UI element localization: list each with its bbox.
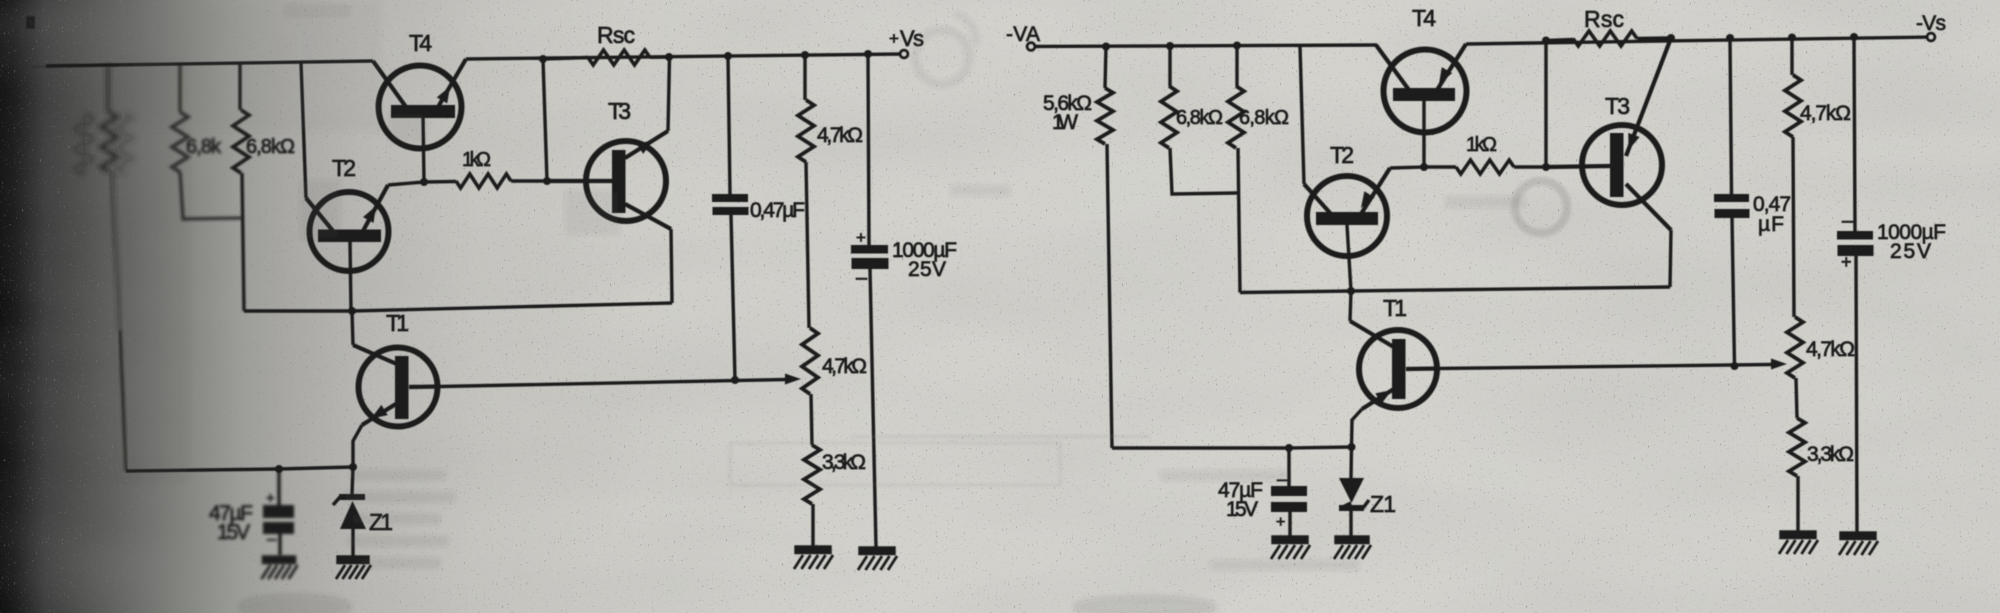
node: rail junction T3 emitter (right) — [1667, 34, 1675, 42]
label 47uF (left, blurred) — [209, 502, 253, 544]
node: rail junction 1000uF (right) — [1850, 33, 1858, 41]
wire: T3 collector down — [671, 229, 672, 303]
wire: wiper wire from T1 base (left) — [440, 380, 786, 387]
node: rail junction 6,8k first — [1166, 42, 1174, 50]
capacitor 0,47uF (left) — [712, 56, 749, 380]
svg-text:6,8kΩ: 6,8kΩ — [1176, 107, 1223, 129]
svg-text:6,8kΩ: 6,8kΩ — [1239, 107, 1289, 129]
node: rail junction T3 emitter — [665, 53, 673, 61]
transistor T1 (right) — [1350, 321, 1437, 409]
node: 47uF junction (left) — [275, 465, 283, 473]
node: 47uF junction (right) — [1285, 444, 1293, 452]
paper shading top-left — [130, 0, 380, 130]
transistor T2 (right) — [1304, 168, 1390, 256]
capacitor 0,47uF (right) — [1714, 38, 1750, 366]
wire: T3 emitter up to rail — [668, 57, 670, 131]
wire: T3 base node up to rail — [543, 59, 547, 181]
node: rail junction 1000uF (left) — [864, 50, 872, 58]
wire: rail after Rsc (right) — [1637, 36, 1671, 40]
wire: T4 base to 1k node — [423, 116, 424, 182]
svg-text:15V: 15V — [217, 521, 250, 544]
svg-text:Rsc: Rsc — [597, 22, 635, 48]
ground: 1000uF (left) — [858, 548, 897, 570]
svg-text:µF: µF — [1758, 213, 1784, 236]
wire: T2 collector to rail — [301, 63, 306, 198]
svg-text:+: + — [266, 490, 275, 507]
bleed-through smudge (mid right) — [950, 185, 1525, 208]
transistor T3 (left) — [548, 131, 671, 229]
svg-text:3,3kΩ: 3,3kΩ — [1807, 443, 1854, 466]
terminal -VA — [1027, 43, 1035, 51]
wire: bottom reference wire (left) — [126, 467, 353, 471]
wire: T2 base down (right) — [1347, 225, 1351, 291]
bleed-through box outline (bottom middle) — [730, 443, 1060, 485]
svg-text:15V: 15V — [1226, 498, 1258, 521]
resistor Rsc (left) — [588, 50, 650, 65]
svg-text:25V: 25V — [1890, 240, 1931, 263]
wire: T2 base down — [350, 241, 351, 311]
bleed-through text ghosts (bottom left) — [345, 470, 455, 568]
wire: T2 base / T3 collector horizontal — [244, 303, 672, 311]
node: rail junction at Rsc left (right) — [1542, 37, 1550, 45]
faint crease streak (center) — [850, 435, 1150, 438]
transistor T2 (left) — [306, 185, 389, 271]
wire: T2 emitter to 1k node — [388, 182, 424, 185]
svg-text:+: + — [1276, 514, 1285, 531]
wire: rail gap Rsc left (left circuit) — [543, 58, 588, 60]
svg-text:T2: T2 — [1330, 142, 1354, 168]
svg-text:-VA: -VA — [1006, 23, 1040, 46]
svg-text:T4: T4 — [1412, 5, 1436, 31]
node: rail junction 0,47uF (right) — [1726, 34, 1734, 42]
zener diode Z1 (right) — [1339, 447, 1369, 536]
transistor T4 (left) — [373, 59, 466, 149]
node: rail junction 4,7k (right) — [1788, 34, 1796, 42]
resistor Rsc (right) — [1573, 31, 1637, 46]
wire: 1k left lead (right) — [1424, 165, 1456, 168]
rail fade into gutter (left) — [34, 64, 70, 70]
resistor 6,8k (right second) — [1228, 46, 1244, 293]
resistor 5,6k 1W (right) — [1097, 47, 1113, 449]
ground: 1000uF (right) — [1839, 533, 1878, 555]
svg-text:T1: T1 — [386, 310, 409, 336]
node: zener junction (left) — [349, 463, 357, 471]
node: T3 base junction — [543, 177, 551, 185]
svg-text:4,7kΩ: 4,7kΩ — [817, 124, 863, 147]
transistor T4 (right) — [1376, 44, 1467, 133]
svg-text:4,7kΩ: 4,7kΩ — [1800, 102, 1851, 125]
resistor 3,3k (left) — [804, 445, 820, 547]
potentiometer 4,7k (left) — [802, 328, 818, 445]
svg-text:6,8k: 6,8k — [186, 136, 222, 158]
svg-text:4,7kΩ: 4,7kΩ — [1806, 338, 1855, 361]
ghost bleed-through circle (page reverse) — [915, 14, 976, 84]
capacitor 47uF 15V (right) — [1271, 448, 1307, 536]
ground: 47uF (right) — [1271, 537, 1310, 559]
node: T1 collector junction (right) — [1347, 287, 1355, 295]
svg-text:–: – — [267, 529, 277, 548]
ground: divider (right) — [1779, 532, 1818, 554]
wire: 1k right lead to T3 base node — [511, 179, 548, 182]
wire: left circuit top supply rail — [46, 61, 373, 66]
svg-text:Rsc: Rsc — [1584, 6, 1624, 32]
node: zener junction (right) — [1348, 443, 1356, 451]
resistor 3,3k (right) — [1789, 418, 1805, 532]
wire: T2 collector to rail (right) — [1300, 46, 1304, 184]
terminal +Vs — [900, 50, 908, 58]
node: rail junction 4,7k (left) — [801, 51, 809, 59]
ground: divider (left) — [794, 547, 833, 569]
wire: T1 collector up — [352, 311, 353, 345]
wire: T4 base down (right) — [1422, 99, 1425, 167]
node: rail junction 0,47uF (left) — [724, 52, 732, 60]
svg-text:+: + — [889, 29, 899, 48]
ground: zener (left) — [336, 557, 371, 579]
svg-text:1kΩ: 1kΩ — [462, 149, 491, 171]
svg-text:T4: T4 — [409, 30, 432, 56]
svg-text:+: + — [856, 228, 866, 247]
wire: rail gap Rsc (right) — [1546, 40, 1573, 41]
svg-text:T3: T3 — [608, 98, 631, 124]
ghost bleed-through circle near T3 (right) — [1515, 181, 1567, 233]
wire: T1 emitter down to zener node — [353, 425, 362, 467]
resistor 4,7k upper (left) — [798, 55, 814, 328]
svg-text:Z1: Z1 — [1370, 491, 1396, 517]
svg-text:T1: T1 — [1383, 295, 1407, 321]
node: rail junction at Rsc left — [539, 55, 547, 63]
node: T4 base junction — [420, 178, 428, 186]
ghost mark top edge — [28, 18, 33, 27]
wire: T2 emitter to 1k node (right) — [1390, 167, 1424, 168]
label 6,8kOhm (left) — [246, 136, 295, 158]
resistor 1k (left) — [456, 174, 511, 188]
resistor 4,7k upper (right) — [1785, 38, 1801, 318]
label 6,8k (blurred) — [186, 136, 222, 158]
capacitor 1000uF 25V (right) — [1837, 37, 1874, 532]
transistor T1 (left) — [353, 345, 440, 427]
capacitor 47uF 15V (left, blurred) — [263, 469, 294, 556]
node: wiper junction 0,47uF (right) — [1731, 362, 1739, 370]
resistor 6,8k (left second) — [233, 64, 249, 312]
svg-text:1W: 1W — [1052, 111, 1078, 134]
svg-text:6,8kΩ: 6,8kΩ — [246, 136, 295, 158]
ground: zener (right) — [1334, 537, 1371, 559]
svg-text:4,7kΩ: 4,7kΩ — [822, 355, 867, 378]
wire: T1 collector up (right) — [1350, 291, 1351, 321]
wire: 1k right lead (right) — [1514, 165, 1548, 168]
wire: bottom reference wire (right) — [1112, 447, 1352, 448]
svg-text:T2: T2 — [332, 155, 356, 181]
svg-text:–: – — [1842, 210, 1854, 232]
wire: rail after Rsc (left) — [650, 55, 669, 59]
node: rail junction 6,8k second — [1233, 42, 1241, 50]
zener diode Z1 (left) — [333, 467, 366, 557]
svg-text:+: + — [1841, 252, 1852, 272]
wire: T3 collector down (right) — [1670, 230, 1671, 287]
svg-text:25V: 25V — [908, 258, 946, 281]
node: rail junction 5,6k — [1102, 43, 1110, 51]
transistor T3 (right) — [1548, 38, 1671, 230]
ground: 47uF (left, blurred) — [262, 557, 298, 579]
wire: T3 base node up to rail (right) — [1544, 41, 1547, 168]
resistor 5,6k bias (left, blurred) — [101, 65, 117, 173]
node: T1 collector junction — [348, 307, 356, 315]
wire: 1k left lead — [424, 180, 456, 184]
wire: right circuit top supply rail — [1036, 45, 1377, 47]
node: T3 base junction (right) — [1542, 163, 1550, 171]
wire: T2 base / T3 collector horizontal (right) — [1240, 287, 1670, 293]
ghost smudge bottom left — [240, 596, 350, 613]
wire: T1 emitter down (right) — [1352, 409, 1363, 447]
svg-text:0,47µF: 0,47µF — [750, 199, 805, 222]
capacitor 1000uF 25V (left) — [851, 54, 889, 547]
terminal -Vs — [1927, 33, 1935, 41]
bleed-through text ghosts (upper left) — [285, 5, 620, 240]
resistor ghost echo (scan blur) — [76, 113, 132, 174]
ghost smudge bottom middle — [1075, 598, 1215, 613]
node: wiper junction 0,47uF (left) — [731, 376, 739, 384]
resistor 6,8k (left first, blurred) — [172, 64, 242, 219]
svg-text:-Vs: -Vs — [1916, 12, 1946, 35]
wire: wiper wire from T1 base (right) — [1437, 365, 1772, 369]
svg-text:1kΩ: 1kΩ — [1466, 134, 1497, 156]
svg-text:3,3kΩ: 3,3kΩ — [822, 451, 866, 474]
svg-text:–: – — [856, 267, 868, 289]
resistor 1k (right) — [1456, 160, 1514, 174]
svg-text:T3: T3 — [1605, 93, 1630, 119]
potentiometer 4,7k (right) — [1787, 317, 1803, 418]
bleed-through text ghost (right bottom) — [1160, 470, 1360, 570]
node: T4 base junction (right) — [1420, 163, 1428, 171]
resistor 6,8k (right first) — [1161, 46, 1237, 194]
scan smear streak (left margin) — [118, 60, 188, 480]
